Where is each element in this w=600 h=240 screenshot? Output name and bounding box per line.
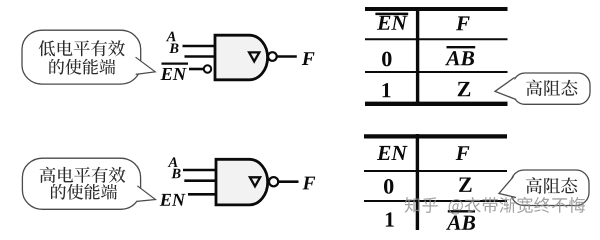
- wire input EN to U2: [188, 193, 216, 196]
- callout bubble for U1 active-low enable: [22, 30, 141, 84]
- inversion bubble on EN input of U1: [204, 65, 211, 72]
- truth table 1 bottom border: [365, 102, 508, 106]
- truth table 1 row divider 2: [365, 71, 508, 73]
- callout bubble high-impedance note for table 1: [513, 73, 590, 104]
- callout text 高阻态 for table 1: [526, 80, 577, 97]
- truth table 1 column divider: [416, 7, 419, 106]
- tri-state NAND gate U1 body: [215, 35, 268, 80]
- inversion bubble on U2 output: [269, 177, 278, 186]
- label EN input of U1: [161, 68, 187, 80]
- wire input EN to U1: [189, 68, 203, 71]
- label A input of U2: [168, 157, 178, 167]
- truth table 2 row divider 1: [364, 170, 507, 172]
- label F output of U1: [302, 52, 315, 65]
- table 2 header EN: [377, 146, 408, 160]
- table 1 header F: [456, 16, 470, 30]
- label EN input of U2: [160, 194, 186, 206]
- overline on table 1 header EN: [375, 13, 408, 16]
- table 1 header EN: [377, 16, 408, 30]
- truth table 2 top border: [364, 134, 507, 138]
- tri-state triangle inside U1: [249, 52, 259, 61]
- table 1 cell EN=0: [382, 52, 391, 67]
- table 1 cell EN=1: [383, 83, 391, 97]
- callout bubble for U2 active-high enable: [22, 158, 140, 209]
- truth table 2 row divider 2: [364, 200, 507, 202]
- label F output of U2: [303, 177, 316, 190]
- tri-state triangle inside U2: [250, 177, 260, 186]
- callout bubble high-impedance note for table 2: [511, 170, 589, 206]
- callout text line2 的使能端: [51, 184, 117, 200]
- truth table 2 column divider: [416, 134, 419, 230]
- label B input of U2: [171, 169, 180, 179]
- wire U1 output to F: [277, 55, 297, 58]
- label A input of U1: [166, 32, 176, 42]
- table 1 cell F=AB-bar: [445, 51, 474, 65]
- wire U2 output to F: [279, 180, 299, 183]
- table 2 header F: [456, 146, 470, 160]
- truth table 1 top border: [365, 7, 508, 11]
- table 2 cell F=AB-bar: [446, 216, 475, 230]
- callout text line2 的使能端: [49, 59, 115, 75]
- inversion bubble on U1 output: [268, 52, 277, 61]
- label B input of U1: [169, 44, 178, 54]
- callout text line1 高电平有效: [40, 167, 126, 183]
- overline on AB in table 1: [447, 46, 476, 48]
- watermark 知乎 @衣带渐宽终不悔: [405, 197, 585, 215]
- wire input B to U2: [184, 179, 216, 182]
- overline on AB in table 2: [448, 210, 475, 212]
- callout text line1 低电平有效: [39, 40, 125, 56]
- wire input A to U1: [183, 45, 216, 48]
- table 2 cell EN=1: [386, 212, 394, 226]
- wire input B to U1: [185, 55, 216, 58]
- overline on EN label of U1: [162, 62, 189, 64]
- table 2 cell EN=0: [384, 179, 393, 194]
- callout text 高阻态 for table 2: [526, 177, 577, 194]
- table 2 cell F=Z: [459, 178, 472, 192]
- truth table 1 row divider 1: [365, 38, 508, 40]
- tri-state NAND gate U2 body: [216, 159, 268, 205]
- table 1 cell F=Z: [458, 82, 471, 96]
- wire input A to U2: [183, 169, 216, 172]
